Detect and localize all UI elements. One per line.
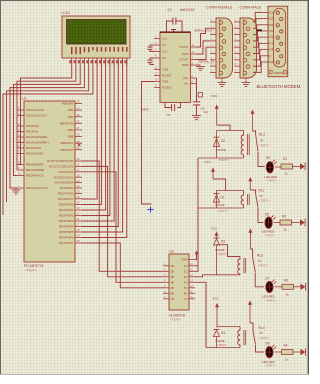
svg-text:D4: D4 xyxy=(221,331,225,335)
U2 COM pin with power flag xyxy=(181,251,198,262)
svg-text:COM: COM xyxy=(181,258,188,262)
svg-text:RB3/PGM: RB3/PGM xyxy=(60,121,74,125)
svg-text:1B: 1B xyxy=(171,264,175,268)
svg-text:MAX232: MAX232 xyxy=(180,8,195,12)
diode D3 xyxy=(214,238,228,275)
LCD pin numbers xyxy=(69,60,126,63)
svg-text:VCC: VCC xyxy=(211,227,218,231)
ground below J2 xyxy=(242,78,251,87)
svg-text:<TEXT>: <TEXT> xyxy=(258,264,269,268)
svg-text:RD0/PSP0: RD0/PSP0 xyxy=(59,203,74,207)
capacitor C4 at MAX232 left xyxy=(148,45,155,52)
svg-text:RL2: RL2 xyxy=(259,133,265,137)
wire MCU RC1 to ULN input 3 xyxy=(82,166,163,276)
svg-text:RC6/TX/CK: RC6/TX/CK xyxy=(58,192,74,196)
svg-text:RA0/AN0: RA0/AN0 xyxy=(26,124,39,128)
svg-text:D3: D3 xyxy=(221,240,225,244)
wire ULN output to relay RL4 coil xyxy=(195,282,206,347)
svg-text:C2+: C2+ xyxy=(162,50,168,54)
darlington array U2 ULN2003A body xyxy=(169,254,189,310)
no-connect mark at RB port xyxy=(78,144,81,147)
svg-text:R3: R3 xyxy=(284,279,288,283)
power flag VCC for relay RL2 xyxy=(211,94,230,131)
power terminal right of R4 xyxy=(301,349,306,355)
svg-text:C1+: C1+ xyxy=(162,37,168,41)
svg-text:4B: 4B xyxy=(171,280,175,284)
U3 right pins and labels xyxy=(179,44,196,86)
svg-text:RC5/SDO: RC5/SDO xyxy=(60,186,74,190)
svg-text:RB7/PGD: RB7/PGD xyxy=(60,148,74,152)
svg-text:<TEXT>: <TEXT> xyxy=(218,158,229,162)
svg-text:1k: 1k xyxy=(286,292,290,296)
power terminal right of R1 xyxy=(300,163,305,169)
power terminal right of R3 xyxy=(301,284,306,290)
svg-text:RA4/T0CKI: RA4/T0CKI xyxy=(26,146,41,150)
svg-text:6C: 6C xyxy=(184,291,188,295)
svg-text:RE1/AN6/WR: RE1/AN6/WR xyxy=(26,168,45,172)
svg-text:TXD: TXD xyxy=(269,30,274,33)
svg-text:1k: 1k xyxy=(285,172,289,176)
svg-text:VCC: VCC xyxy=(205,160,212,164)
sheet origin marker xyxy=(148,207,154,213)
svg-text:RB0/INT: RB0/INT xyxy=(62,102,74,106)
capacitor C2 below MAX232 xyxy=(141,103,181,118)
svg-text:RL1: RL1 xyxy=(259,188,265,192)
wires J2 to bluetooth modem xyxy=(253,12,262,72)
svg-text:<TEXT>: <TEXT> xyxy=(25,269,37,273)
svg-text:D7: D7 xyxy=(266,277,270,281)
svg-text:C3: C3 xyxy=(201,107,205,111)
svg-text:DIODE: DIODE xyxy=(216,203,225,207)
svg-text:RB5: RB5 xyxy=(68,135,74,139)
svg-text:RB4: RB4 xyxy=(68,128,74,132)
svg-text:R1OUT: R1OUT xyxy=(162,74,172,78)
svg-text:PIC16F877A: PIC16F877A xyxy=(24,264,44,268)
svg-text:5V: 5V xyxy=(260,194,264,198)
bluetooth modem pins xyxy=(262,11,274,64)
svg-text:10u: 10u xyxy=(204,110,209,114)
svg-text:RB1: RB1 xyxy=(68,108,74,112)
svg-text:RI: RI xyxy=(269,55,272,58)
svg-text:<TEXT>: <TEXT> xyxy=(217,252,228,256)
LED D5 xyxy=(262,213,281,238)
wire T2OUT to COM-FEMALE xyxy=(197,47,211,59)
svg-text:MCLR/Vpp/THV: MCLR/Vpp/THV xyxy=(26,186,48,190)
svg-text:5C: 5C xyxy=(184,286,188,290)
svg-text:5V: 5V xyxy=(258,259,262,263)
svg-text:RD3/PSP3: RD3/PSP3 xyxy=(59,219,74,223)
LCD pin name labels xyxy=(71,47,128,54)
svg-text:RXD: RXD xyxy=(269,24,274,27)
svg-text:RA5/AN4/SS: RA5/AN4/SS xyxy=(26,152,43,156)
svg-text:DIODE: DIODE xyxy=(217,148,226,152)
svg-text:RC4/SDI/SDA: RC4/SDI/SDA xyxy=(55,181,74,185)
wire bus LCD control pins to left side xyxy=(3,66,93,216)
wire ULN output to relay RL2 coil xyxy=(195,158,198,266)
LCD pins xyxy=(72,58,127,66)
svg-text:T1IN: T1IN xyxy=(162,68,168,72)
svg-text:5V: 5V xyxy=(260,139,264,143)
bold TXD wire to bluetooth modem xyxy=(257,29,263,31)
resistor R4 xyxy=(282,344,301,362)
wire R1IN to COM-FEMALE with SERIAL_IN label xyxy=(197,41,214,64)
svg-text:OSC2/CLKOUT: OSC2/CLKOUT xyxy=(26,114,47,118)
svg-text:OSC1/CLKIN: OSC1/CLKIN xyxy=(26,108,44,112)
wire MAX232 T2IN down to origin marker xyxy=(142,82,155,205)
svg-text:VS+: VS+ xyxy=(183,76,189,80)
capacitor C5 at MAX232 left xyxy=(148,58,155,65)
relay RL4 coil and contact xyxy=(206,301,270,353)
svg-text:1C: 1C xyxy=(184,264,188,268)
svg-text:D6: D6 xyxy=(266,156,270,160)
svg-text:R1IN: R1IN xyxy=(182,52,189,56)
diode D1 xyxy=(214,191,229,214)
svg-text:<TEXT>: <TEXT> xyxy=(267,179,278,183)
svg-text:RTS: RTS xyxy=(269,42,274,45)
diode D4 xyxy=(214,330,228,348)
svg-text:CTS: CTS xyxy=(269,36,274,39)
svg-text:7B: 7B xyxy=(171,297,175,301)
svg-text:<TEXT>: <TEXT> xyxy=(217,343,228,347)
line driver U3 MAX232 body xyxy=(160,8,195,103)
svg-text:DSR: DSR xyxy=(269,18,274,21)
bluetooth modem pin circles xyxy=(276,11,283,64)
svg-text:T2OUT: T2OUT xyxy=(179,58,189,62)
svg-text:U1: U1 xyxy=(22,97,27,101)
svg-text:5V: 5V xyxy=(260,331,264,335)
svg-text:GND: GND xyxy=(269,61,275,64)
svg-text:<TEXT>: <TEXT> xyxy=(265,298,276,302)
svg-text:2B: 2B xyxy=(171,269,175,273)
svg-text:R2: R2 xyxy=(282,215,286,219)
svg-text:6B: 6B xyxy=(171,291,175,295)
svg-text:RA3/AN3/VREF+: RA3/AN3/VREF+ xyxy=(26,141,49,145)
svg-text:RB6/PGC: RB6/PGC xyxy=(60,141,74,145)
svg-text:CONN-MALE: CONN-MALE xyxy=(240,6,262,10)
svg-text:U2: U2 xyxy=(170,250,174,254)
svg-text:DTR: DTR xyxy=(269,49,274,52)
resistor R3 xyxy=(282,279,301,297)
resistor R2 xyxy=(280,215,300,232)
LED D8 xyxy=(262,342,282,368)
svg-text:R1: R1 xyxy=(283,157,287,161)
svg-text:1k: 1k xyxy=(285,358,289,362)
diode D2 xyxy=(214,131,230,162)
wire bus LCD data pins to MCU PSP port xyxy=(82,58,127,238)
svg-text:VS-: VS- xyxy=(184,82,189,86)
svg-text:RL3: RL3 xyxy=(257,253,263,257)
svg-text:3C: 3C xyxy=(184,275,188,279)
bluetooth modem bottom detail xyxy=(270,70,287,75)
svg-text:RD6/PSP6: RD6/PSP6 xyxy=(59,236,74,240)
svg-text:BLUETOOTH MODEM: BLUETOOTH MODEM xyxy=(257,84,301,89)
J1 pin circles xyxy=(219,21,226,75)
svg-text:RA2/AN2/VREF-: RA2/AN2/VREF- xyxy=(26,135,48,139)
power flag VCC for relay RL4 xyxy=(213,297,220,328)
svg-text:C1: C1 xyxy=(168,8,172,12)
U1 right pins xyxy=(75,100,82,244)
microcontroller U1 PIC16F877 body xyxy=(24,101,75,262)
svg-text:R2OUT: R2OUT xyxy=(162,86,172,90)
resistor R1 xyxy=(281,157,300,176)
svg-text:<TEXT>: <TEXT> xyxy=(265,233,276,237)
wire ULN output to relay RL1 coil xyxy=(195,208,198,271)
connector J1 COM-FEMALE body xyxy=(216,18,233,78)
LED D6 xyxy=(265,156,282,183)
wire MCU RC2 to ULN input 4 xyxy=(82,172,163,282)
svg-text:VCC: VCC xyxy=(213,297,220,301)
power flag VCC for relay RL3 xyxy=(211,227,219,239)
svg-text:D2: D2 xyxy=(221,139,225,143)
svg-text:C1-: C1- xyxy=(162,43,167,47)
svg-text:RA1/AN1: RA1/AN1 xyxy=(26,130,39,134)
svg-text:RE0/AN5/RD: RE0/AN5/RD xyxy=(26,163,45,167)
LCD display LCD1 body xyxy=(62,16,130,58)
svg-text:<TEXT>: <TEXT> xyxy=(170,318,181,322)
U3 left pins and labels xyxy=(154,36,172,90)
relay RL3 coil and contact xyxy=(203,229,269,287)
svg-text:T2IN: T2IN xyxy=(162,80,168,84)
svg-text:D1: D1 xyxy=(221,196,225,200)
U1 right pin labels xyxy=(47,102,74,246)
svg-text:1k: 1k xyxy=(284,228,288,232)
svg-text:R2IN: R2IN xyxy=(182,63,189,67)
svg-text:RD5/PSP5: RD5/PSP5 xyxy=(59,230,74,234)
svg-text:R4: R4 xyxy=(284,344,288,348)
svg-text:CONN-FEMALE: CONN-FEMALE xyxy=(206,6,233,10)
svg-text:LCD1: LCD1 xyxy=(61,11,70,15)
svg-text:RE2/AN7/CS: RE2/AN7/CS xyxy=(26,174,44,178)
svg-text:<TEXT>: <TEXT> xyxy=(259,336,270,340)
relay RL1 coil and contact xyxy=(198,177,270,223)
LED D7 xyxy=(262,277,282,303)
U1 left pins xyxy=(17,106,24,188)
U1 left pin labels xyxy=(26,108,49,190)
svg-text:RC2/CCP1: RC2/CCP1 xyxy=(59,170,74,174)
capacitor C1 above MAX232 xyxy=(167,8,183,32)
capacitor C3 at VS+ with ground xyxy=(192,78,208,120)
ground below J1 xyxy=(218,78,227,87)
svg-text:C2-: C2- xyxy=(162,56,167,60)
svg-text:ERROR: ERROR xyxy=(274,71,283,75)
svg-text:SERIAL_OUT: SERIAL_OUT xyxy=(194,29,213,33)
svg-text:<TEXT>: <TEXT> xyxy=(259,144,270,148)
svg-text:RC1/T1OSI/CCP2: RC1/T1OSI/CCP2 xyxy=(49,165,74,169)
svg-text:RD7/PSP7: RD7/PSP7 xyxy=(59,241,74,245)
U2 output pins xyxy=(184,263,195,301)
svg-text:D8: D8 xyxy=(266,342,270,346)
svg-text:RB2: RB2 xyxy=(68,115,74,119)
J2 pins xyxy=(234,20,240,72)
svg-text:<TEXT>: <TEXT> xyxy=(217,209,228,213)
svg-text:DCD: DCD xyxy=(269,11,274,14)
svg-text:RC0/T1OSO/T1CKI: RC0/T1OSO/T1CKI xyxy=(47,159,74,163)
svg-text:3B: 3B xyxy=(171,275,175,279)
J2 pin circles xyxy=(243,21,250,75)
svg-text:2C: 2C xyxy=(184,269,188,273)
power flag VCC for relay RL1 xyxy=(205,160,226,191)
svg-text:T1OUT: T1OUT xyxy=(179,45,189,49)
svg-text:7C: 7C xyxy=(184,297,188,301)
ground at R2IN xyxy=(196,65,205,71)
svg-text:RD1/PSP1: RD1/PSP1 xyxy=(59,208,74,212)
svg-text:RL4: RL4 xyxy=(259,326,265,330)
bluetooth modem module body xyxy=(268,6,288,77)
wire MCU RC0 to ULN input 2 xyxy=(82,161,163,271)
power terminal right of R2 xyxy=(300,219,305,225)
svg-text:RC7/RX/DT: RC7/RX/DT xyxy=(58,197,74,201)
wire T1OUT to COM-FEMALE with SERIAL_OUT label xyxy=(194,28,213,47)
svg-text:RD2/PSP2: RD2/PSP2 xyxy=(59,214,74,218)
small junction box near C3 xyxy=(198,93,202,97)
svg-text:D5: D5 xyxy=(265,213,269,217)
U2 input pins xyxy=(163,263,174,301)
svg-text:5B: 5B xyxy=(171,286,175,290)
svg-text:<TEXT>: <TEXT> xyxy=(265,364,276,368)
wire MCU RD7 to ULN input 5 xyxy=(82,243,163,288)
relay RL2 coil and contact xyxy=(198,110,270,167)
wire ULN output to relay RL3 coil xyxy=(195,275,203,277)
svg-text:RD4/PSP4: RD4/PSP4 xyxy=(59,225,74,229)
svg-text:RC3/SCK/SCL: RC3/SCK/SCL xyxy=(54,175,74,179)
connector J2 COM-MALE body xyxy=(240,18,257,78)
J1 pins xyxy=(210,20,216,72)
svg-text:C2: C2 xyxy=(167,113,171,117)
ground near MCLR pin xyxy=(12,188,21,194)
svg-text:4C: 4C xyxy=(184,280,188,284)
svg-text:VCC: VCC xyxy=(211,94,218,98)
svg-text:<TEXT>: <TEXT> xyxy=(259,199,270,203)
